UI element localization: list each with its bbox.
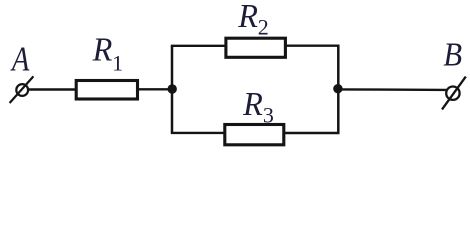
wire: right vertical branch riser [337,46,340,133]
svg-text:R: R [92,31,113,69]
svg-text:2: 2 [258,15,269,40]
svg-text:A: A [10,39,30,78]
node: left junction dot [168,84,177,93]
resistor R1 [76,81,137,100]
wire: top branch left segment [171,45,226,47]
wire: bottom branch left segment [171,132,225,134]
wire: left vertical branch riser [171,46,174,133]
terminal B [442,77,466,110]
resistor R2 [226,38,286,57]
label R2 [237,0,269,40]
svg-text:R: R [237,0,258,35]
svg-text:1: 1 [112,51,123,76]
resistor R3 [225,125,284,145]
label R1 [92,31,123,76]
wire: bottom branch right segment [285,132,340,134]
node: right junction dot [333,84,342,93]
svg-text:R: R [242,85,263,123]
terminal A [10,76,34,103]
wire A to R1 [29,88,76,90]
svg-text:3: 3 [263,103,274,128]
wire R1 to left junction [139,88,173,90]
label R3 [242,85,274,127]
wire: top branch right segment [286,45,340,47]
wire right junction to B [338,88,446,91]
svg-text:B: B [443,35,462,73]
